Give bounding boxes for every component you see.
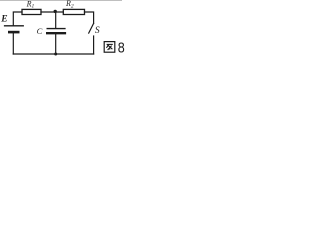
svg-text:S: S [95,26,100,36]
battery E short plate [9,31,18,34]
capacitor C top lead [55,12,57,28]
scan artifact top edge line [0,0,122,2]
capacitor C bottom lead [55,34,57,54]
battery E long plate [5,25,24,27]
node junction dot top [54,10,57,13]
svg-text:C: C [37,26,43,36]
wire top-left segment [13,12,22,25]
resistor R1 [22,9,41,14]
node junction dot bottom [54,53,57,56]
wire R1 to R2 [41,11,63,13]
wire switch lower lead [93,36,95,54]
wire battery bottom lead [12,33,14,54]
capacitor C bottom plate [47,32,65,34]
wire bottom [13,53,93,55]
svg-text:8: 8 [118,39,125,56]
label figure caption: hanzi tu (figure) drawn as strokes [104,42,115,53]
svg-text:E: E [0,15,7,25]
capacitor C top plate [47,28,65,30]
wire R2 to top-right corner [85,12,94,23]
switch S blade [89,24,94,33]
resistor R2 [63,9,84,14]
